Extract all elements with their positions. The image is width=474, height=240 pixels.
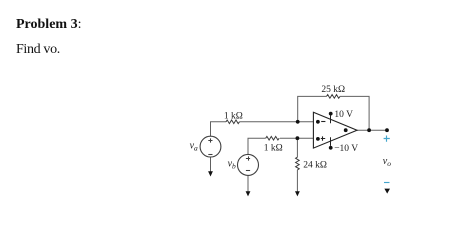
plus sign [321,136,325,140]
svg-text:25 kΩ: 25 kΩ [321,85,345,95]
negative supply dot [329,146,333,150]
svg-text:−10 V: −10 V [334,144,358,154]
wire node B to R4 [296,138,298,157]
svg-text:1 kΩ: 1 kΩ [264,143,283,153]
svg-text:vb: vb [228,159,236,171]
positive supply dot [329,112,333,116]
node A dot [296,120,300,124]
voltage source va [200,136,221,157]
svg-text:24 kΩ: 24 kΩ [303,161,327,171]
voltage source vb [238,154,259,175]
svg-text:va: va [190,141,198,153]
resistor RF 25 kOhm [327,95,341,99]
wire va to R1 [211,122,227,136]
wire va to ground arrow [210,157,212,172]
wire vb to R2 [248,138,266,154]
svg-text:vo: vo [383,156,391,168]
op-amp U1 [313,110,358,154]
ground arrow below vb [246,191,251,196]
minus sign [321,121,325,123]
output minus sign (cyan) [384,182,390,184]
resistor R1 1 kOhm [226,120,239,124]
positive supply stub [330,115,332,123]
ground arrow below va [208,171,213,176]
wire op-amp output [357,129,387,131]
ground arrow at output [384,189,390,194]
wire R2 to noninverting input [280,137,314,139]
output terminal dot [385,128,389,132]
node B dot [296,136,300,140]
output plus sign (cyan) [384,136,390,142]
wire R4 to ground [296,170,298,192]
negative supply stub [330,137,332,146]
svg-text:1 kΩ: 1 kΩ [224,112,243,122]
resistor R2 1 kOhm [266,136,280,140]
wire vb to ground arrow [247,176,249,192]
inverting input pin dot [316,120,320,124]
wire R1 to inverting input [240,121,314,123]
noninverting input pin dot [316,137,320,141]
ground arrow below R4 [295,191,300,196]
resistor R4 24 kOhm [296,157,300,170]
node output-feedback junction dot [367,128,371,132]
wire RF to output node [340,96,369,130]
wire node A up to RF [298,96,327,121]
svg-text:10 V: 10 V [334,110,353,120]
output pin dot [344,128,348,132]
